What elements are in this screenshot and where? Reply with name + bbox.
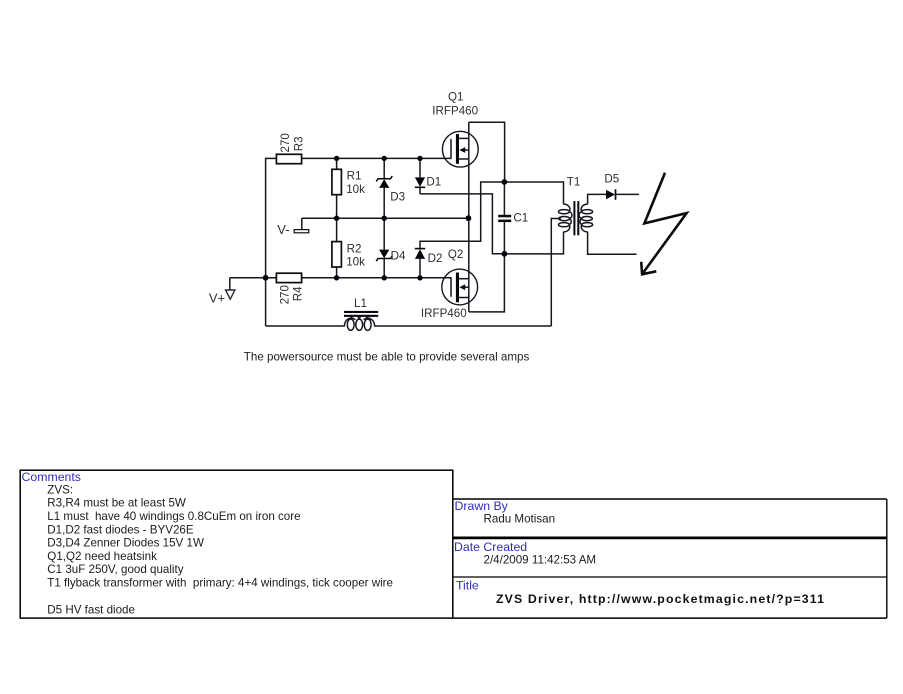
title block right table borders (453, 498, 887, 500)
wire top rail left stub (265, 157, 276, 159)
svg-text:IRFP460: IRFP460 (432, 104, 478, 117)
wire middle V- row (302, 217, 469, 219)
svg-text:D5 HV fast diode: D5 HV fast diode (47, 603, 135, 616)
terminal V+ triangle (226, 290, 235, 299)
resistor R3 (276, 154, 301, 163)
svg-text:C1 3uF 250V, good quality: C1 3uF 250V, good quality (47, 563, 183, 576)
svg-text:R3: R3 (293, 136, 306, 151)
junction node bottom rail D4 (382, 275, 387, 280)
svg-text:V-: V- (277, 222, 289, 237)
svg-text:Q1,Q2 need heatsink: Q1,Q2 need heatsink (47, 550, 157, 563)
svg-text:Date Created: Date Created (454, 540, 527, 554)
svg-text:ZVS:: ZVS: (47, 483, 73, 496)
svg-text:R1: R1 (347, 170, 362, 183)
transformer T1 secondary winding (579, 204, 593, 232)
comments text (47, 483, 393, 616)
wire D1 to C1 bottom node staircase (420, 194, 504, 254)
wire Q1 drain riser and Q2 source return (468, 122, 470, 312)
diode D1 (419, 158, 421, 177)
wire T1 center tap (551, 219, 561, 327)
svg-text:V+: V+ (209, 291, 225, 306)
svg-text:Radu Motisan: Radu Motisan (484, 513, 556, 526)
junction node middle row D3 D4 (382, 216, 387, 221)
svg-text:T1: T1 (567, 176, 581, 189)
wire top rail to Q1 gate (302, 157, 452, 159)
transformer T1 core (573, 201, 575, 235)
svg-text:D1,D2 fast diodes - BYV26E: D1,D2 fast diodes - BYV26E (47, 523, 194, 536)
wire C1 top node to T1 primary top (504, 182, 563, 204)
junction node bottom rail D2 (417, 275, 422, 280)
wire top jog to C1 bus (469, 122, 505, 182)
resistor R1 (336, 158, 338, 169)
svg-text:D3: D3 (390, 191, 405, 204)
svg-text:D5: D5 (604, 172, 619, 185)
svg-text:Q2: Q2 (448, 248, 463, 261)
resistor R2 (336, 218, 338, 241)
svg-text:270: 270 (279, 285, 292, 304)
junction node middle row end (466, 215, 472, 221)
svg-text:L1: L1 (354, 297, 367, 310)
wire D5 to spark gap top (616, 193, 639, 195)
junction node V+ corner (263, 275, 269, 281)
svg-text:D4: D4 (391, 249, 406, 262)
transformer T1 primary winding (559, 204, 573, 232)
mosfet Q2 (442, 269, 478, 305)
wire bottom gate rail (230, 277, 277, 279)
capacitor C1 (503, 182, 505, 215)
wire T1 secondary top to D5 (588, 194, 606, 204)
zener diode D3 (383, 158, 385, 178)
wire C1 top node to D2 staircase (420, 182, 504, 249)
diode D5 (606, 190, 615, 200)
title block comments box (20, 470, 453, 618)
wire T1 secondary bottom to spark gap (588, 232, 637, 254)
svg-text:D3,D4 Zenner Diodes 15V 1W: D3,D4 Zenner Diodes 15V 1W (47, 537, 204, 550)
svg-text:ZVS Driver, http://www.pocketm: ZVS Driver, http://www.pocketmagic.net/?… (496, 592, 825, 606)
junction node top rail D1 (417, 156, 422, 161)
diode D2 (415, 248, 425, 250)
svg-text:Drawn By: Drawn By (455, 499, 509, 513)
svg-text:The powersource must be able t: The powersource must be able to provide … (244, 350, 530, 363)
junction node C1 top (502, 179, 508, 185)
inductor L1 winding (344, 315, 374, 330)
wire bottom outer rail left of L1 (266, 325, 345, 327)
junction node C1 bottom (502, 251, 508, 257)
spark arrow (641, 173, 686, 274)
svg-text:10k: 10k (346, 183, 365, 196)
wire Q2 source return to C1 bottom node (469, 254, 505, 312)
zener diode D4 (383, 218, 385, 249)
svg-text:2/4/2009 11:42:53 AM: 2/4/2009 11:42:53 AM (484, 554, 597, 567)
svg-text:Q1: Q1 (448, 90, 463, 103)
resistor R4 (276, 273, 301, 282)
junction node middle row R1 R2 (334, 216, 339, 221)
svg-text:R2: R2 (347, 242, 362, 255)
svg-text:R4: R4 (291, 286, 304, 301)
svg-text:C1: C1 (513, 212, 528, 225)
svg-text:T1 flyback transformer with p: T1 flyback transformer with primary: 4+4… (47, 577, 393, 590)
wire left outer vertical (265, 158, 267, 326)
inductor L1 core bars (344, 311, 378, 313)
svg-text:R3,R4 must be at least 5W: R3,R4 must be at least 5W (47, 497, 186, 510)
svg-text:10k: 10k (346, 256, 365, 269)
wire V+ drop (229, 278, 231, 290)
svg-text:IRFP460: IRFP460 (421, 307, 467, 320)
junction node top rail R1 (334, 156, 339, 161)
wire T1 primary bottom lead (504, 232, 563, 254)
svg-text:D2: D2 (428, 252, 443, 265)
svg-text:D1: D1 (426, 176, 441, 189)
terminal V- (301, 218, 303, 230)
svg-text:Title: Title (456, 578, 479, 592)
mosfet Q1 (442, 131, 478, 167)
svg-text:L1 must have 40 windings 0.8C: L1 must have 40 windings 0.8CuEm on iron… (47, 510, 300, 523)
wire bottom outer rail right of L1 (375, 325, 552, 327)
svg-text:Comments: Comments (22, 470, 81, 484)
junction node top rail D3 (382, 156, 387, 161)
svg-text:270: 270 (279, 133, 292, 152)
junction node bottom rail R2 (334, 275, 339, 280)
